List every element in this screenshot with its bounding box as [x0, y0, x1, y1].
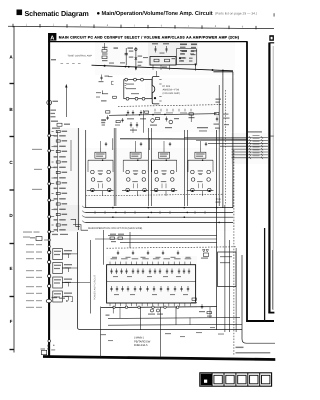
op-amp IC601 package outline	[152, 77, 159, 104]
extra top band labels	[109, 63, 114, 64]
aux connector pin 1	[48, 239, 50, 241]
svg-text:6: 6	[161, 25, 163, 28]
left ruler tick 6	[10, 349, 15, 351]
top ruler tick 5	[120, 25, 122, 29]
top ruler line	[8, 26, 274, 28]
footer cell 1 active black	[201, 374, 212, 386]
junction dot 2	[128, 66, 130, 68]
svg-text:7: 7	[188, 25, 190, 28]
input column part row 3	[56, 140, 60, 142]
transistor cell label box 2	[130, 152, 141, 158]
scan tint input column	[50, 128, 80, 232]
junction dot 3	[212, 69, 214, 71]
input column bracket	[70, 140, 72, 171]
left ruler tick 3	[10, 189, 15, 191]
left ruler line	[13, 26, 15, 352]
svg-text:8: 8	[215, 25, 217, 28]
top ruler tick 2	[39, 24, 41, 28]
bus label	[216, 99, 222, 100]
bottom wire 2	[108, 317, 240, 320]
svg-text:MAIN CIRCUIT PC AND CD/INPUT S: MAIN CIRCUIT PC AND CD/INPUT SELECT / VO…	[59, 36, 240, 40]
right vertical rail 5 rounded corner	[242, 255, 275, 343]
supply line 1	[108, 234, 217, 236]
relay box bottom drops	[152, 65, 154, 70]
capacitor above power amp C1	[117, 251, 119, 256]
input column part row 7	[56, 161, 60, 163]
input column part row 14	[54, 198, 58, 200]
svg-text:B: B	[9, 107, 13, 112]
text column right of relay 2	[191, 44, 197, 46]
footer cell 3	[223, 373, 225, 386]
power amp row2 labels	[114, 294, 119, 295]
thin line above bottom border	[236, 352, 271, 354]
margin note row b	[23, 237, 30, 238]
svg-text:1: 1	[26, 23, 28, 26]
bus junction dots	[112, 207, 114, 209]
power connector pin 2	[48, 260, 51, 263]
input connector pin 2	[48, 149, 51, 152]
left margin text rows	[26, 244, 34, 245]
capacitor above relay 2	[165, 46, 167, 53]
amp rail 3b	[150, 128, 152, 206]
top ruler tick 4	[93, 24, 95, 28]
amp rail 5	[218, 130, 220, 206]
input column right rail	[77, 128, 79, 230]
input column part row 9	[56, 171, 60, 173]
svg-text:5: 5	[134, 24, 136, 27]
input column part row 6	[54, 156, 58, 158]
svg-text:3: 3	[80, 24, 82, 27]
grid number mark 2	[128, 47, 134, 49]
cluster on mid wire 1	[106, 111, 110, 113]
svg-text:9: 9	[242, 25, 244, 28]
power amp capacitor row2 C7	[146, 286, 148, 292]
power amp capacitor row1 C4	[125, 269, 127, 275]
transistor cell Q3	[151, 159, 178, 196]
connector top parts row	[52, 297, 58, 298]
thermal marks	[203, 250, 206, 253]
right frame left edge	[268, 43, 270, 314]
mute box junction dot	[179, 57, 181, 59]
footer cell 4	[235, 373, 237, 386]
wire vertical with arrow	[65, 85, 67, 118]
tone IC sub-box	[124, 80, 152, 99]
tone sub-box transistor 2	[135, 97, 138, 100]
extra lower labels	[100, 334, 106, 335]
signal wire across top	[92, 65, 234, 71]
top ruler tick 6	[147, 25, 149, 29]
tiny label near corner	[236, 347, 244, 349]
power amp capacitor row1 C8	[149, 269, 151, 275]
labels above relay box	[152, 43, 158, 44]
right vertical rail 1	[216, 130, 218, 330]
bottom cluster 3	[207, 312, 211, 314]
power amp capacitor row1 C9	[154, 269, 156, 275]
switch block label 3	[64, 279, 72, 280]
right frame top jog	[269, 42, 274, 44]
cluster on mid wire 2	[127, 110, 129, 115]
right frame inner line lower part	[272, 250, 274, 310]
main frame right edge	[246, 42, 248, 322]
bias wire long	[120, 138, 247, 140]
header page corner mark	[274, 13, 275, 16]
connector eyelet on frame edge	[47, 100, 52, 105]
mute box output arrow	[195, 64, 197, 67]
labels below connector	[51, 110, 57, 111]
power amp capacitor row1 C10	[159, 269, 161, 275]
mute box text d	[181, 60, 184, 61]
power amp capacitor row2 C2	[116, 286, 118, 292]
transistor cell label box 1	[95, 152, 106, 158]
svg-text:4: 4	[107, 24, 109, 27]
main frame bottom border	[43, 355, 275, 361]
capacitor above power amp C3	[147, 251, 149, 256]
mute box text c	[183, 57, 187, 58]
input column part row 20	[54, 229, 58, 231]
amp rail 2b	[115, 128, 117, 206]
svg-text:2: 2	[53, 24, 55, 27]
drop wire E	[112, 307, 114, 314]
svg-text:Schematic Diagram: Schematic Diagram	[25, 9, 89, 18]
capacitor C tone	[125, 48, 127, 65]
footer cell 6	[259, 373, 261, 386]
bus start hooks	[82, 206, 85, 208]
top ruler tick 1	[12, 24, 14, 28]
tiny marks below inner line	[270, 136, 274, 137]
output junction 2	[125, 306, 127, 308]
cluster above power amp	[110, 237, 115, 239]
power amp capacitor row2 C6	[139, 286, 141, 292]
IC601 bottom pins	[154, 109, 156, 112]
power amp capacitor row2 C9	[160, 286, 162, 292]
cluster mid 5	[165, 117, 167, 122]
left ruler tick 5	[10, 296, 15, 298]
power amp capacitor row2 C10	[167, 286, 169, 292]
capacitor above power amp C4	[162, 251, 164, 256]
interconnect header label	[248, 131, 262, 132]
bus wire 4	[86, 221, 234, 223]
IC601 top stub	[155, 71, 157, 77]
input column part row 13	[56, 192, 60, 194]
switch block box 2	[53, 263, 63, 274]
output junction 3	[138, 306, 140, 308]
power amp IC602 box	[107, 265, 196, 303]
output network transistors	[151, 309, 154, 312]
footer cell 2	[211, 373, 213, 386]
power amp capacitor row1 C15	[188, 269, 190, 275]
output junction 6	[177, 306, 179, 308]
power amp capacitor row2 C13	[187, 286, 189, 292]
amp rail 2a	[113, 128, 115, 206]
power amp capacitor row2 C3	[121, 286, 123, 292]
top ruler tick 10	[255, 26, 257, 30]
left margin small component	[36, 237, 42, 241]
right vertical rail 4	[235, 248, 237, 332]
switch block box 1	[53, 249, 63, 260]
left margin label 3	[32, 189, 42, 190]
signal wire mid	[109, 114, 217, 116]
interconnect wire 8	[232, 157, 268, 159]
power amp capacitor row1 C12	[171, 269, 173, 275]
volume pot wire	[135, 47, 137, 70]
tone sub-box top ring 1	[125, 78, 128, 81]
input column part row 12	[54, 188, 58, 190]
relay box resistor 1	[154, 59, 159, 62]
transistor mid 1	[151, 119, 155, 123]
svg-text:C: C	[9, 160, 13, 165]
power amp bottom pins	[109, 303, 111, 306]
relay box resistor 2	[165, 59, 170, 62]
resistor cluster upper	[102, 50, 107, 53]
bundle source labels	[197, 127, 208, 128]
sub box corner wire	[213, 71, 233, 73]
capacitor above power amp C2	[132, 251, 134, 256]
main frame left edge	[48, 33, 50, 358]
capacitor above power amp C5	[177, 251, 179, 256]
tone sub-box top ring 3	[141, 78, 144, 81]
svg-text:E: E	[9, 266, 12, 271]
scan tint wire bundle	[231, 133, 268, 164]
corner wire	[102, 90, 108, 93]
input column part row 10	[54, 177, 58, 179]
IC601 pin dot	[154, 97, 156, 99]
junction dot 4	[222, 70, 224, 72]
input connector pin 5	[48, 199, 51, 202]
top ruler tick 9	[228, 26, 230, 30]
power amp capacitor row1 C1	[110, 269, 112, 275]
power connector pin 4	[48, 284, 51, 287]
power amp capacitor row2 C1	[110, 286, 112, 292]
header subtitle bullet	[97, 12, 100, 15]
interconnect wire 4	[220, 145, 268, 147]
input connector pin 3	[48, 166, 51, 169]
right vertical rail 3	[228, 240, 230, 332]
power amp capacitor row2 C12	[180, 286, 182, 292]
power connector pin 3	[48, 274, 51, 277]
vertical wire drop	[143, 110, 145, 133]
supply line 2	[95, 238, 217, 240]
output junction 5	[164, 306, 166, 308]
input column part row 19	[56, 224, 60, 226]
power amp row1 labels	[113, 276, 118, 277]
interconnect wire 7	[232, 154, 268, 156]
switch block wire 3	[62, 282, 68, 284]
rail left power 2	[89, 240, 91, 314]
component cluster lower tone area	[51, 121, 58, 122]
mute control sub-box	[177, 49, 197, 65]
capacitor cluster upper mid	[100, 75, 102, 81]
bus wire 1	[86, 207, 234, 209]
label mid	[101, 100, 107, 101]
drop wire C	[140, 307, 142, 330]
drop 2	[148, 138, 150, 150]
bus wire 3	[86, 216, 234, 218]
transistor cell Q1	[87, 159, 114, 196]
extra wires above cells	[99, 141, 101, 152]
interconnect wire 5	[232, 148, 268, 150]
text column right of relay 1	[180, 44, 187, 46]
top ruler tick 7	[174, 25, 176, 29]
input column part row 2	[54, 135, 58, 137]
resistor R mid	[113, 96, 117, 98]
scan tint top parts band	[95, 42, 235, 75]
tone sub-box transistor 3	[142, 97, 145, 100]
power amp capacitor row2 C11	[174, 286, 176, 292]
power amp top pin labels	[111, 258, 118, 259]
corner wire left power rail	[78, 232, 243, 330]
power amp internal rail	[107, 281, 196, 283]
drop wire A	[160, 307, 162, 357]
scan tint ic rows band	[145, 78, 235, 132]
input connector pin 1	[48, 134, 51, 137]
input column part row 4	[54, 146, 58, 148]
scan tint lower connector band	[45, 232, 80, 330]
vertical bus A	[232, 72, 234, 208]
dashed vertical rail	[233, 150, 235, 356]
scan tint power amp	[106, 256, 197, 308]
extra mid band parts	[116, 121, 120, 123]
power amp top pins	[109, 262, 111, 265]
input connector pin 6	[48, 215, 51, 218]
transistor cell label box 4	[195, 152, 206, 158]
aux connector pin 2	[48, 245, 50, 247]
tone sub-box pin dashes	[125, 82, 127, 85]
margin wire	[44, 239, 48, 241]
relay box label	[172, 58, 176, 59]
lower column tail label	[52, 234, 58, 235]
schematic section badge A	[48, 33, 56, 41]
input column part row 11	[56, 182, 60, 184]
relay/mute block box	[150, 57, 176, 66]
right vertical rail 2	[224, 205, 226, 332]
right frame bottom foot	[268, 312, 274, 314]
capacitor pair lower mid	[130, 122, 132, 128]
power amp capacitor row1 C11	[166, 269, 168, 275]
switch block wire 1	[62, 253, 68, 255]
dotted underline	[61, 62, 64, 65]
thin line left of right frame	[264, 228, 266, 321]
power amp capacitor row1 C5	[132, 269, 134, 275]
input connector pin 7	[48, 230, 51, 233]
IC601 pin bumps	[159, 79, 161, 81]
amp rail 1	[85, 130, 87, 208]
left ruler tick 2	[10, 136, 15, 138]
junction dot 0	[104, 65, 106, 67]
main frame top border	[48, 41, 247, 43]
rail left power 3	[102, 230, 104, 265]
junction dot 1	[125, 66, 127, 68]
dashed feedback line	[118, 105, 223, 107]
mute box text b	[181, 53, 185, 54]
transistor cell Q2	[122, 159, 149, 196]
input column part row 5	[56, 150, 60, 152]
drop wire B	[100, 307, 102, 357]
vertical bus B	[222, 70, 224, 207]
speaker relay box	[218, 252, 236, 287]
input column part row 16	[54, 209, 58, 211]
left margin label 1	[32, 149, 42, 150]
scan tint relay region	[148, 42, 198, 66]
svg-text:D: D	[9, 213, 13, 218]
top ruler tick 8	[201, 25, 203, 29]
grid number mark 1	[114, 47, 119, 49]
cluster mid 7	[215, 113, 219, 115]
IC601 bottom pin labels	[154, 112, 161, 113]
output wire	[101, 307, 217, 308]
power connector oval	[46, 299, 51, 302]
cluster on mid wire 3	[140, 110, 142, 115]
bus step wire 2	[73, 225, 88, 231]
left ruler tick 4	[10, 243, 15, 245]
transistor cell label box 3	[159, 152, 170, 158]
bus step wire 1	[71, 219, 80, 226]
output junction 4	[152, 306, 154, 308]
capacitor above relay 1	[154, 46, 156, 53]
input connector pin 4	[48, 182, 51, 185]
interconnect wire 6	[232, 151, 268, 153]
power amp capacitor row1 C2	[115, 269, 117, 275]
svg-text:(Parts list on page 29 — 34.): (Parts list on page 29 — 34.)	[215, 12, 257, 16]
transistor cell Q4	[187, 159, 214, 196]
switch block label 2	[64, 264, 72, 265]
power amp capacitor row2 C4	[127, 286, 129, 292]
label blob left mid	[101, 119, 106, 121]
margin note row a	[23, 232, 32, 233]
input column part row 18	[54, 219, 58, 221]
main frame right edge bend to B frame	[246, 320, 274, 322]
left margin label 2	[34, 169, 42, 170]
connector label	[53, 101, 59, 102]
left ruler tick 1	[10, 83, 15, 85]
power amp capacitor row2 C5	[134, 286, 136, 292]
small label near frame edge	[51, 59, 56, 60]
header black square bullet	[17, 10, 23, 16]
labels right mid	[223, 114, 229, 115]
bottom cluster 1	[192, 298, 196, 300]
vertical wire short	[218, 85, 220, 130]
bus tick marks	[94, 211, 96, 214]
switch block box 3	[53, 277, 63, 288]
input column part row 8	[54, 167, 58, 169]
bottom-left corner connector mark	[42, 350, 47, 354]
power connector pin 1	[48, 251, 51, 254]
bus wire 2	[86, 211, 234, 213]
power amp capacitor row1 C13	[178, 269, 180, 275]
drop 1	[112, 138, 114, 150]
power amp capacitor row1 C7	[142, 269, 144, 275]
bottom-left connector marks	[48, 340, 51, 343]
input column part row 15	[56, 203, 60, 205]
scan tint bus band	[60, 205, 235, 231]
amp rail 3a	[147, 128, 149, 206]
top ruler tick 3	[66, 24, 68, 28]
section badge B	[269, 35, 274, 41]
power amp capacitor row2 C8	[153, 286, 155, 292]
switch block label 1	[64, 250, 72, 251]
footer strip outline	[200, 373, 272, 386]
svg-text:F: F	[10, 319, 13, 324]
cap top of cells	[105, 142, 107, 146]
input column rail	[57, 131, 59, 232]
input column part row 17	[56, 213, 60, 215]
footer cell 5	[247, 373, 249, 386]
dashed vertical mid-right	[225, 90, 227, 205]
left column connector stubs	[50, 135, 54, 137]
cluster mid 6	[189, 113, 193, 115]
supply line 3	[120, 242, 217, 244]
bottom cluster 2	[201, 304, 203, 309]
amp rail 4a	[183, 130, 185, 206]
